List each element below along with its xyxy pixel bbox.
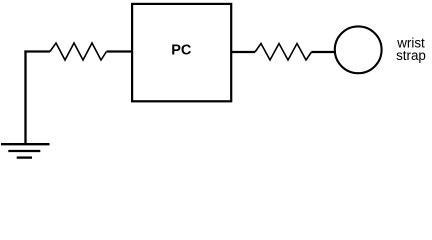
label PC xyxy=(171,43,192,59)
resistor R2 (right) xyxy=(255,44,312,61)
label: wrist strap xyxy=(396,36,426,64)
wire: right resistor to wrist strap electrode xyxy=(312,51,337,53)
PC box U1 xyxy=(132,4,231,101)
wire: corner to left resistor xyxy=(24,50,50,52)
svg-text:strap: strap xyxy=(396,48,426,63)
wire: PC box to right resistor xyxy=(231,51,255,53)
wrist strap electrode (circle) xyxy=(335,26,382,73)
wire: left resistor to PC box xyxy=(107,50,133,52)
ground xyxy=(1,144,50,157)
wire: riser from ground to corner node xyxy=(24,51,26,145)
resistor R1 (left) xyxy=(50,43,107,60)
svg-text:PC: PC xyxy=(171,43,192,59)
